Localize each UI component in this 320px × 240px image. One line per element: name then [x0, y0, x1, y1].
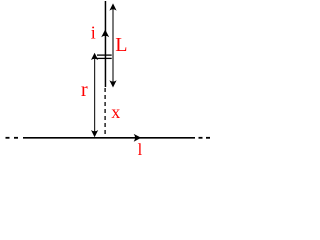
- svg-text:l: l: [138, 140, 143, 159]
- left continuation dash 1: [6, 137, 10, 139]
- svg-text:i: i: [91, 22, 96, 42]
- svg-text:L: L: [115, 34, 127, 56]
- wire segment of length L carrying current i: [104, 1, 106, 87]
- long straight wire (horizontal): [23, 137, 195, 139]
- right continuation dash 1: [199, 137, 203, 139]
- dimension L top arrowhead: [109, 3, 116, 10]
- element tick mark upper: [97, 54, 112, 56]
- dimension line r shaft: [94, 57, 96, 134]
- dimension L bottom arrowhead: [109, 80, 116, 87]
- dimension r top arrowhead: [91, 53, 98, 60]
- right continuation dash 2: [206, 137, 210, 139]
- dimension line L shaft: [112, 8, 114, 84]
- svg-text:x: x: [111, 102, 120, 122]
- element tick mark lower: [97, 57, 112, 59]
- left continuation dash 2: [14, 137, 18, 139]
- dashed distance x line: [104, 88, 106, 138]
- dimension r bottom arrowhead: [91, 130, 98, 137]
- current arrowhead i on wire: [101, 30, 109, 38]
- current I arrowhead on horizontal wire: [134, 134, 142, 142]
- svg-text:r: r: [81, 79, 88, 101]
